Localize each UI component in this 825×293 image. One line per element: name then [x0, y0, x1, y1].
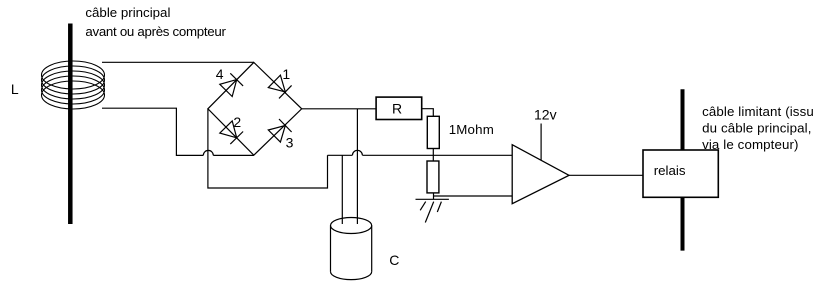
svg-text:câble principal: câble principal: [85, 5, 170, 20]
svg-text:via le compteur): via le compteur): [702, 137, 799, 152]
svg-text:2: 2: [233, 114, 241, 130]
svg-text:R: R: [392, 101, 402, 117]
svg-text:4: 4: [216, 66, 224, 82]
svg-text:12v: 12v: [534, 107, 557, 123]
svg-text:avant ou après compteur: avant ou après compteur: [85, 24, 226, 39]
svg-text:L: L: [11, 81, 19, 97]
svg-text:câble limitant (issu: câble limitant (issu: [702, 104, 814, 119]
svg-text:1Mohm: 1Mohm: [449, 122, 494, 137]
svg-text:du câble principal,: du câble principal,: [702, 121, 811, 136]
svg-text:relais: relais: [654, 163, 686, 178]
svg-text:3: 3: [286, 134, 294, 150]
svg-text:1: 1: [282, 66, 290, 82]
svg-text:C: C: [389, 252, 399, 268]
